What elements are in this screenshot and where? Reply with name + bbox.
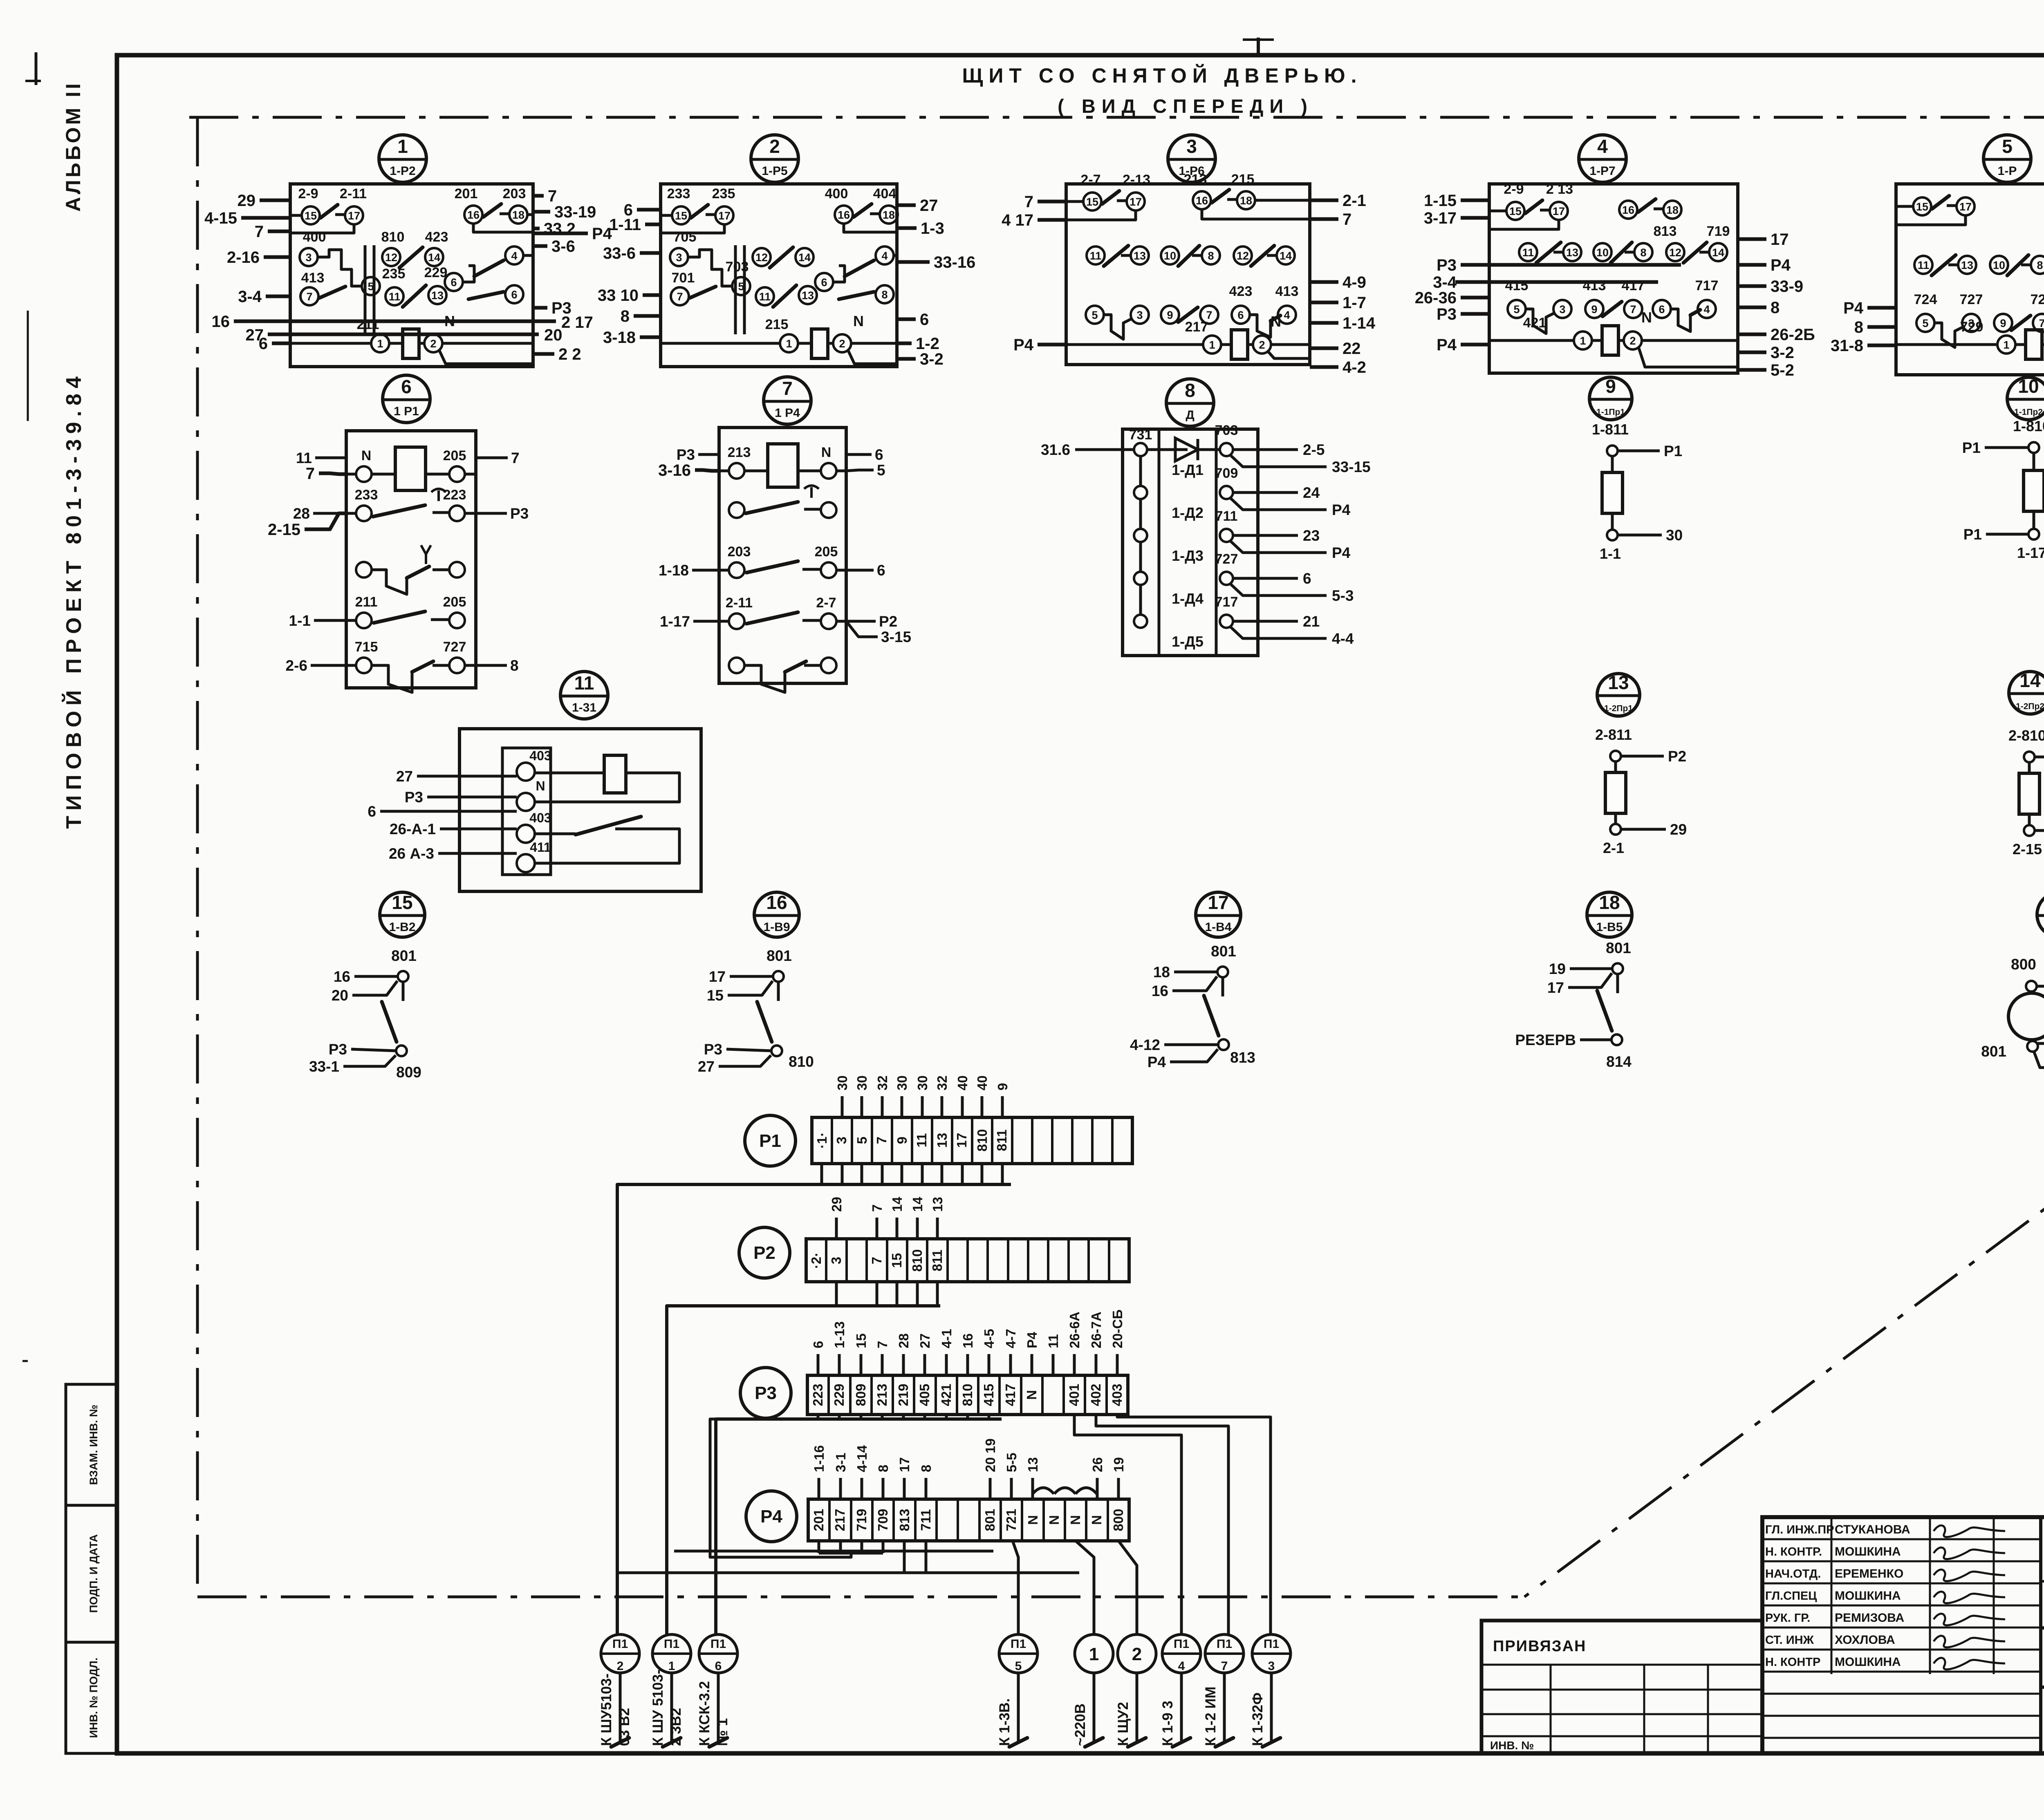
svg-text:403: 403 bbox=[529, 748, 551, 763]
relay coil bbox=[395, 447, 426, 490]
cell divider bbox=[845, 1239, 848, 1282]
svg-text:801: 801 bbox=[1606, 940, 1631, 956]
bottom inner wire bbox=[848, 350, 897, 364]
contact 12 bbox=[382, 248, 400, 266]
svg-text:7: 7 bbox=[1630, 303, 1636, 316]
svg-text:16: 16 bbox=[334, 968, 350, 985]
wire + label 3-2 bbox=[897, 357, 916, 361]
contact 17 bbox=[1957, 197, 1975, 215]
svg-text:2-15: 2-15 bbox=[268, 521, 300, 539]
svg-text:6: 6 bbox=[877, 562, 885, 579]
contact 9 bbox=[1585, 300, 1603, 318]
svg-text:6: 6 bbox=[920, 311, 929, 329]
svg-text:Р3: Р3 bbox=[1437, 256, 1457, 274]
wire + label 6 bbox=[380, 810, 517, 813]
svg-text:ГЛ.СПЕЦ: ГЛ.СПЕЦ bbox=[1765, 1589, 1817, 1603]
svg-text:1-16: 1-16 bbox=[811, 1445, 827, 1472]
contact 1 bbox=[1997, 336, 2015, 354]
svg-text:26: 26 bbox=[1090, 1457, 1105, 1472]
svg-text:4: 4 bbox=[881, 250, 888, 262]
drawing area dash-dot border bottom bbox=[197, 1596, 1524, 1598]
svg-text:П1: П1 bbox=[1217, 1637, 1232, 1651]
blade 11-13 bbox=[773, 285, 796, 307]
svg-text:235: 235 bbox=[712, 186, 735, 201]
svg-text:23: 23 bbox=[1303, 527, 1320, 544]
svg-text:729: 729 bbox=[2031, 292, 2044, 307]
svg-text:2-15: 2-15 bbox=[2013, 841, 2042, 857]
blade 4 bbox=[1271, 316, 1280, 321]
svg-text:6: 6 bbox=[715, 1659, 722, 1673]
svg-text:18: 18 bbox=[1599, 892, 1620, 913]
svg-text:9: 9 bbox=[1605, 376, 1616, 397]
top stub wire cell 2 bbox=[860, 1354, 863, 1375]
wire + label Р2 bbox=[2035, 756, 2044, 759]
svg-text:12: 12 bbox=[1237, 250, 1249, 262]
svg-text:П1: П1 bbox=[1174, 1637, 1189, 1651]
svg-text:РЕЗЕРВ: РЕЗЕРВ bbox=[1515, 1032, 1576, 1048]
svg-text:7: 7 bbox=[782, 378, 793, 399]
svg-text:17: 17 bbox=[1208, 892, 1228, 913]
zigzag 5-3 bbox=[1934, 323, 1963, 347]
svg-text:Р1: Р1 bbox=[1962, 439, 1981, 456]
P3 bottom stubs to bus bbox=[817, 1415, 820, 1419]
svg-text:16: 16 bbox=[838, 209, 850, 221]
svg-text:№ 1: № 1 bbox=[715, 1718, 731, 1746]
wire + label 33 2 bbox=[533, 227, 540, 231]
group header 14 (1-2Пр2) bbox=[2009, 672, 2044, 714]
wire + label Р4 bbox=[1170, 1049, 1218, 1062]
contact 17 bbox=[345, 206, 363, 224]
contact 5 bbox=[362, 277, 380, 295]
svg-text:2: 2 bbox=[1132, 1644, 1142, 1664]
svg-text:19: 19 bbox=[1111, 1457, 1126, 1472]
svg-text:8: 8 bbox=[510, 657, 519, 674]
cell divider bbox=[1105, 1375, 1108, 1415]
svg-text:1-Д2: 1-Д2 bbox=[1172, 504, 1204, 521]
contact 6 bbox=[815, 273, 833, 291]
blade 9-7 bbox=[1602, 302, 1622, 316]
cell divider bbox=[828, 1499, 831, 1541]
thermal blade bbox=[746, 502, 798, 513]
jumper arcs over N cells bbox=[1033, 1488, 1054, 1494]
contact 6 bbox=[445, 273, 463, 291]
contact 11 bbox=[385, 287, 403, 305]
svg-text:421: 421 bbox=[1523, 315, 1546, 331]
svg-text:813: 813 bbox=[1230, 1049, 1255, 1066]
pass-through wire bbox=[268, 333, 539, 336]
svg-text:40: 40 bbox=[955, 1075, 970, 1090]
svg-text:26-2Б: 26-2Б bbox=[1771, 326, 1815, 344]
cell divider bbox=[1027, 1239, 1029, 1282]
svg-text:7: 7 bbox=[548, 187, 557, 205]
svg-text:7: 7 bbox=[1221, 1659, 1228, 1673]
wire switch bbox=[535, 829, 679, 863]
stair wire 3-5 bbox=[688, 250, 733, 286]
svg-text:813: 813 bbox=[1654, 224, 1677, 239]
wire + label Р3 bbox=[351, 1049, 397, 1051]
relay block 1-Р outline bbox=[1896, 184, 2044, 375]
svg-text:Р1: Р1 bbox=[1963, 526, 1982, 543]
P2 bus wire bbox=[667, 1306, 940, 1634]
svg-text:СТ. ИНЖ: СТ. ИНЖ bbox=[1765, 1634, 1814, 1647]
svg-text:4: 4 bbox=[1597, 136, 1608, 157]
contact 8 bbox=[1202, 246, 1220, 264]
svg-text:АЛЬБОМ II: АЛЬБОМ II bbox=[62, 81, 85, 212]
svg-text:28: 28 bbox=[896, 1333, 911, 1348]
svg-text:1 Р1: 1 Р1 bbox=[394, 405, 419, 418]
svg-text:15: 15 bbox=[1916, 201, 1928, 213]
contact 1 bbox=[1574, 331, 1592, 349]
svg-text:21: 21 bbox=[1303, 613, 1320, 630]
svg-text:213: 213 bbox=[728, 445, 751, 460]
wire + label 2 2 bbox=[533, 352, 554, 356]
top stub wire cell 6 bbox=[936, 1218, 939, 1239]
svg-text:ПРИВЯЗАН: ПРИВЯЗАН bbox=[1493, 1638, 1586, 1655]
cable foot bbox=[1262, 1738, 1280, 1747]
svg-text:Р4: Р4 bbox=[1332, 544, 1351, 561]
svg-text:809: 809 bbox=[396, 1064, 421, 1081]
terminal strip Р4 body bbox=[808, 1499, 1129, 1541]
blade 16-18 bbox=[1638, 199, 1656, 212]
diode row terminal L1 bbox=[1134, 443, 1147, 456]
wire + label 33-1 bbox=[343, 1055, 396, 1066]
svg-text:14: 14 bbox=[890, 1197, 905, 1212]
svg-text:1-1: 1-1 bbox=[289, 612, 311, 629]
svg-text:2-11: 2-11 bbox=[340, 186, 367, 201]
relay coil bbox=[1602, 326, 1618, 355]
svg-text:3: 3 bbox=[834, 1137, 849, 1144]
wire + label 4 17 bbox=[1038, 218, 1066, 222]
document number cell bbox=[2041, 1580, 2044, 1583]
left stamp box: inv podl bbox=[66, 1642, 118, 1753]
piano key verticals bbox=[734, 245, 737, 334]
pass-through wire bbox=[1472, 263, 1681, 267]
cell divider bbox=[1047, 1239, 1049, 1282]
svg-text:217: 217 bbox=[832, 1509, 847, 1531]
blade 7 bbox=[319, 287, 345, 298]
cable wire down bbox=[1180, 1673, 1183, 1742]
wire bbox=[2021, 264, 2030, 266]
wire + label 33 10 bbox=[643, 293, 661, 297]
svg-text:7: 7 bbox=[306, 291, 312, 303]
svg-text:33-9: 33-9 bbox=[1771, 278, 1803, 295]
row feed wires bbox=[719, 470, 729, 472]
cell divider bbox=[1062, 1375, 1065, 1415]
terminal strip Р4 designator circle bbox=[746, 1491, 797, 1542]
wire + label 17 bbox=[1738, 237, 1766, 241]
svg-text:203: 203 bbox=[728, 544, 751, 560]
blade 16-18 bbox=[854, 204, 872, 217]
lamp top terminal bbox=[2026, 981, 2037, 992]
svg-text:7: 7 bbox=[870, 1204, 885, 1212]
svg-text:7: 7 bbox=[677, 291, 683, 303]
svg-text:3-6: 3-6 bbox=[551, 237, 575, 255]
row feed wires bbox=[346, 664, 356, 667]
relay block 1-Р2 outline bbox=[290, 184, 533, 367]
svg-text:14: 14 bbox=[1712, 246, 1724, 259]
wire 17 return bbox=[1896, 215, 1966, 225]
svg-text:Р3: Р3 bbox=[405, 789, 423, 806]
contact 14 bbox=[796, 248, 814, 266]
svg-text:2: 2 bbox=[430, 338, 436, 350]
svg-text:15: 15 bbox=[1086, 196, 1098, 208]
svg-text:711: 711 bbox=[1215, 508, 1238, 524]
svg-text:423: 423 bbox=[1229, 284, 1253, 299]
svg-text:810: 810 bbox=[789, 1053, 814, 1070]
svg-text:17: 17 bbox=[1547, 979, 1564, 996]
group header 10 (1-1Пр2) bbox=[2007, 377, 2044, 420]
wire + label Р4 bbox=[1230, 540, 1327, 553]
svg-text:4: 4 bbox=[1178, 1659, 1185, 1673]
cell divider bbox=[870, 1375, 873, 1415]
svg-text:~220В: ~220В bbox=[1072, 1704, 1088, 1746]
wire + label 1-14 bbox=[1310, 321, 1338, 325]
svg-text:223: 223 bbox=[443, 487, 466, 503]
svg-text:26-6А: 26-6А bbox=[1067, 1312, 1082, 1348]
svg-text:20: 20 bbox=[332, 987, 348, 1004]
svg-text:40: 40 bbox=[975, 1075, 990, 1090]
diode row terminal L4 bbox=[1134, 572, 1147, 585]
cable circle П1/3 bbox=[1252, 1634, 1291, 1673]
wire + label 3-6 bbox=[533, 244, 547, 248]
wire + label 1-3 bbox=[897, 226, 917, 230]
wire + label Р4 top bbox=[2037, 985, 2044, 988]
svg-text:7: 7 bbox=[869, 1257, 884, 1264]
svg-text:1-17: 1-17 bbox=[660, 613, 690, 630]
contact 18 bbox=[1663, 201, 1681, 219]
wire + label 15 bbox=[728, 981, 773, 995]
svg-text:1-В9: 1-В9 bbox=[763, 920, 790, 934]
svg-text:17: 17 bbox=[718, 210, 731, 222]
svg-text:5-2: 5-2 bbox=[1771, 361, 1794, 379]
svg-text:423: 423 bbox=[425, 229, 448, 245]
wire bbox=[1625, 251, 1634, 254]
contact 16 bbox=[1619, 201, 1637, 219]
svg-text:16: 16 bbox=[960, 1333, 975, 1348]
svg-text:701: 701 bbox=[672, 270, 695, 286]
cut-corner diagonal dash-dot line bbox=[1524, 1061, 2044, 1597]
svg-text:1-13: 1-13 bbox=[832, 1321, 847, 1348]
svg-text:15: 15 bbox=[675, 210, 687, 222]
diode symbol bbox=[1147, 448, 1188, 451]
top stub wire cell 4 bbox=[903, 1478, 906, 1499]
wire + label 1-15 bbox=[1461, 199, 1489, 202]
svg-text:4-4: 4-4 bbox=[1332, 630, 1354, 647]
svg-text:205: 205 bbox=[815, 544, 838, 560]
svg-text:3: 3 bbox=[1559, 303, 1565, 316]
svg-text:413: 413 bbox=[1275, 284, 1299, 299]
contact 17 bbox=[715, 206, 733, 224]
svg-text:2: 2 bbox=[1259, 339, 1265, 351]
svg-text:2-7: 2-7 bbox=[816, 595, 836, 611]
blade 12-14 bbox=[399, 247, 423, 268]
svg-text:7: 7 bbox=[255, 223, 264, 241]
svg-text:2-5: 2-5 bbox=[1303, 441, 1325, 458]
svg-text:7: 7 bbox=[874, 1137, 889, 1144]
cable wire down bbox=[1223, 1673, 1226, 1742]
svg-text:МОШКИНА: МОШКИНА bbox=[1835, 1589, 1901, 1603]
cable foot bbox=[1085, 1738, 1103, 1747]
svg-text:801: 801 bbox=[982, 1509, 997, 1531]
wire + label 4-15 bbox=[241, 216, 290, 220]
switch blade bbox=[576, 817, 641, 835]
wire coil row bbox=[290, 342, 372, 345]
top stub wire cell 0 bbox=[817, 1354, 820, 1375]
contact 5 bbox=[732, 277, 750, 295]
svg-text:8: 8 bbox=[1208, 250, 1214, 262]
svg-text:810: 810 bbox=[381, 229, 405, 245]
svg-text:11: 11 bbox=[1090, 250, 1102, 262]
svg-text:П1: П1 bbox=[612, 1637, 628, 1651]
svg-text:Р1: Р1 bbox=[759, 1131, 781, 1151]
svg-text:12: 12 bbox=[1669, 246, 1681, 259]
svg-text:4: 4 bbox=[1284, 309, 1290, 321]
wire + label 6 bbox=[846, 453, 872, 456]
fuse top terminal bbox=[2024, 752, 2035, 762]
bottom inner wire bbox=[439, 350, 533, 364]
svg-text:1-В5: 1-В5 bbox=[1596, 920, 1623, 934]
fuse bottom terminal bbox=[1607, 530, 1618, 540]
blade to 8 bbox=[468, 292, 504, 299]
hook wire right contacts bbox=[833, 266, 845, 282]
svg-text:29: 29 bbox=[829, 1197, 844, 1212]
left stamp box: vzaim inv bbox=[66, 1384, 118, 1505]
svg-text:1: 1 bbox=[2003, 339, 2009, 351]
top stub wire cell 7 bbox=[961, 1096, 964, 1117]
wire bbox=[1121, 254, 1130, 257]
cell divider bbox=[892, 1499, 895, 1541]
svg-text:801: 801 bbox=[766, 947, 792, 964]
group header 6 (1 Р1) bbox=[383, 375, 430, 423]
wire 17 return bbox=[661, 224, 724, 233]
svg-text:33-1: 33-1 bbox=[309, 1058, 339, 1075]
svg-text:2-1: 2-1 bbox=[1342, 192, 1366, 210]
top stub wire cell 9 bbox=[1001, 1096, 1004, 1117]
wire + label 24 bbox=[1233, 491, 1298, 494]
svg-text:6: 6 bbox=[1237, 309, 1244, 321]
contact pair row 1 bbox=[729, 463, 744, 479]
cell divider bbox=[957, 1499, 959, 1541]
top stub wire cell 8 bbox=[981, 1096, 984, 1117]
svg-text:2-7: 2-7 bbox=[1080, 172, 1100, 188]
diode row terminal R5 bbox=[1220, 615, 1233, 628]
svg-text:215: 215 bbox=[1231, 172, 1255, 187]
wire 16 return bbox=[844, 223, 897, 232]
svg-text:1-18: 1-18 bbox=[659, 562, 689, 579]
wire + label РЕЗЕРВ bbox=[1580, 1039, 1612, 1041]
diode row terminal L2 bbox=[1134, 486, 1147, 499]
svg-text:3: 3 bbox=[829, 1257, 844, 1264]
svg-text:26-А-1: 26-А-1 bbox=[390, 821, 436, 837]
svg-text:П1: П1 bbox=[1011, 1637, 1026, 1651]
relay coil bbox=[811, 329, 828, 358]
svg-text:1-15: 1-15 bbox=[1424, 192, 1457, 210]
blade bbox=[1536, 242, 1561, 263]
wire + label 26-36 bbox=[1461, 296, 1489, 300]
contact 8 bbox=[1634, 243, 1652, 261]
svg-text:229: 229 bbox=[831, 1383, 847, 1406]
object description cell bbox=[2041, 1626, 2044, 1630]
contact 4 bbox=[1278, 306, 1296, 324]
svg-text:14: 14 bbox=[2019, 670, 2041, 691]
svg-text:НАЧ.ОТД.: НАЧ.ОТД. bbox=[1765, 1567, 1821, 1580]
svg-text:10: 10 bbox=[1993, 259, 2005, 271]
wire + label 5-3 bbox=[1230, 583, 1327, 595]
svg-text:18: 18 bbox=[1153, 964, 1170, 981]
svg-text:Р4: Р4 bbox=[1843, 299, 1864, 317]
P4 loop wire left bbox=[710, 1419, 851, 1557]
relay block 1-Р5 outline bbox=[661, 184, 897, 367]
contact pair row 2 bbox=[729, 502, 744, 518]
contact 7 bbox=[300, 287, 318, 305]
relay coil bbox=[2026, 330, 2042, 359]
wire + label 5-2 bbox=[1738, 368, 1766, 372]
top stub wire cell 5 bbox=[916, 1218, 919, 1239]
contact 12 bbox=[1234, 246, 1252, 264]
diode row terminal L5 bbox=[1134, 615, 1147, 628]
cable foot bbox=[1128, 1738, 1146, 1747]
svg-text:4-9: 4-9 bbox=[1342, 273, 1366, 291]
svg-text:8: 8 bbox=[919, 1465, 934, 1472]
svg-text:219: 219 bbox=[896, 1383, 911, 1406]
svg-text:30: 30 bbox=[894, 1075, 910, 1090]
contact 13 bbox=[1958, 256, 1976, 274]
contact 7 bbox=[1624, 300, 1642, 318]
contact 16 bbox=[464, 206, 482, 224]
svg-text:1-Д5: 1-Д5 bbox=[1172, 633, 1204, 650]
svg-text:Р3: Р3 bbox=[1437, 305, 1457, 323]
svg-text:8: 8 bbox=[881, 289, 888, 301]
svg-text:203: 203 bbox=[503, 186, 526, 201]
contact 2 bbox=[833, 334, 851, 352]
cell divider bbox=[849, 1375, 852, 1415]
svg-text:814: 814 bbox=[1606, 1053, 1632, 1070]
wire to coil bbox=[535, 772, 604, 775]
contact 10 bbox=[1990, 256, 2008, 274]
svg-text:Р4: Р4 bbox=[760, 1507, 782, 1527]
wire + label 7 bbox=[1038, 200, 1066, 204]
wire + label 31-8 bbox=[1867, 344, 1896, 347]
contact 2 bbox=[1624, 331, 1642, 349]
contact 15 bbox=[1913, 197, 1931, 215]
hook wire right contacts bbox=[462, 266, 474, 282]
svg-text:П1: П1 bbox=[710, 1637, 726, 1651]
fuse bottom terminal bbox=[2024, 825, 2035, 836]
svg-text:800: 800 bbox=[1111, 1509, 1126, 1531]
svg-text:Н. КОНТР.: Н. КОНТР. bbox=[1765, 1545, 1822, 1558]
svg-text:16: 16 bbox=[212, 313, 230, 331]
wire 4 right bbox=[523, 254, 533, 257]
block 11 outline bbox=[459, 729, 701, 891]
wire + label 33-9 bbox=[1738, 284, 1766, 288]
svg-text:717: 717 bbox=[1215, 594, 1238, 610]
svg-text:2-811: 2-811 bbox=[1595, 726, 1632, 743]
cell divider bbox=[951, 1117, 953, 1164]
svg-text:11: 11 bbox=[296, 450, 312, 466]
svg-text:1-Р5: 1-Р5 bbox=[762, 164, 787, 178]
svg-text:9: 9 bbox=[2000, 317, 2006, 329]
P4 wire to cable П1/5 bbox=[1013, 1541, 1018, 1634]
svg-text:400: 400 bbox=[303, 229, 326, 245]
wire + label 2-5 bbox=[1233, 448, 1298, 451]
blade bbox=[1683, 242, 1707, 263]
svg-text:13: 13 bbox=[431, 289, 444, 302]
svg-text:Р4: Р4 bbox=[1437, 336, 1457, 354]
svg-text:1-17: 1-17 bbox=[2017, 544, 2044, 561]
wire from coil bbox=[626, 773, 679, 792]
title block outer bbox=[1762, 1517, 2044, 1753]
terminal strip Р1 designator circle bbox=[745, 1115, 796, 1166]
